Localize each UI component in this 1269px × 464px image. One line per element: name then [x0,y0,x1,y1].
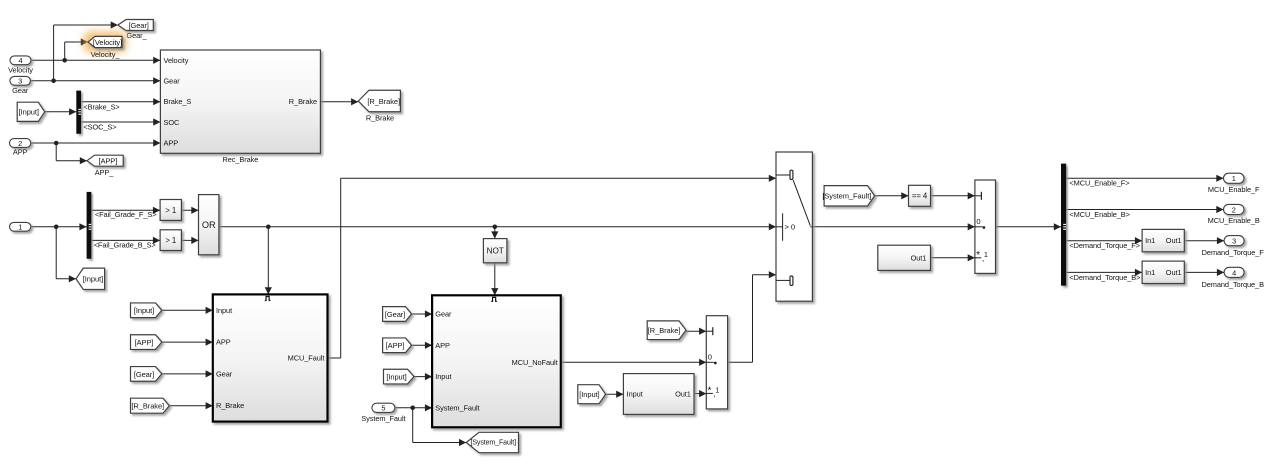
svg-text:[R_Brake]: [R_Brake] [648,326,681,335]
inport 2 [10,139,31,148]
label Demand_Torque_F [1202,248,1265,257]
goto tag [R_Brake] [358,90,400,112]
logic block OR [199,195,219,255]
svg-text:Input: Input [435,372,451,381]
wire Inport2 to Rec_Brake APP with branch down to Goto [APP] [31,139,161,164]
svg-text:<Fail_Grade_B_S>: <Fail_Grade_B_S> [94,241,156,250]
goto tag [Input] lower-left [76,268,105,289]
svg-text:Input: Input [627,390,643,399]
svg-text:2: 2 [1232,205,1236,214]
subsystem Rec_Brake [160,50,320,153]
goto tag [Gear] [118,20,153,31]
svg-text:1: 1 [18,223,22,232]
svg-text:[R_Brake]: [R_Brake] [367,97,400,106]
svg-text:System_Fault: System_Fault [435,403,479,412]
svg-text:In1: In1 [1145,268,1155,277]
signal label SOC_S [83,123,116,132]
wire From [R_Brake] to MultiportSwitch1 control [686,328,706,335]
bus selector 2 [87,192,92,259]
svg-text:Out1: Out1 [1166,268,1182,277]
label Velocity [8,65,33,74]
svg-text:[System_Fault]: [System_Fault] [470,439,516,446]
svg-text:Brake_S: Brake_S [164,97,192,106]
wire subsystem Out1 to MultiportSwitch1 port1 [694,390,706,397]
wire Rec_Brake R_Brake to Goto [R_Brake] [320,98,358,105]
svg-text:<Demand_Torque_B>: <Demand_Torque_B> [1069,273,1140,282]
goto tag [Velocity] highlighted [84,31,127,52]
svg-text:[Input]: [Input] [83,275,103,284]
wire From [Input] to MCU_Fault Input [162,307,213,314]
wire In1Out1 subsystem1 to Outport3 [1184,237,1224,244]
svg-text:[Velocity]: [Velocity] [93,38,122,47]
svg-text:<Fail_Grade_F_S>: <Fail_Grade_F_S> [95,210,157,219]
from tag [Gear] for MCU_NoFault [383,307,412,322]
signal label Fail_Grade_B_S [94,241,156,250]
from tag [Input] for MCU_Fault [131,303,162,318]
compare block >1 upper [160,200,181,221]
label MCU_Enable_B [1208,216,1260,225]
outport 4 [1224,267,1244,277]
svg-text:<Brake_S>: <Brake_S> [83,102,119,111]
label Demand_Torque_B [1201,280,1264,289]
svg-text:Demand_Torque_F: Demand_Torque_F [1202,248,1265,257]
subsystem Input/Out1 [623,374,694,415]
svg-text:[APP]: [APP] [386,341,405,350]
svg-text:3: 3 [18,77,22,86]
subsystem MCU_NoFault (triggered) [432,295,561,427]
wire MultiportSwitch2 output to BusSelector3 [996,223,1062,230]
svg-text:0: 0 [976,217,980,226]
wire From [Input] to MCU_NoFault Input [414,373,432,380]
svg-text:<Demand_Torque_F>: <Demand_Torque_F> [1069,241,1140,250]
wire Out1 subsystem to MultiportSwitch2 port1 [931,254,975,261]
svg-text:MCU_Enable_F: MCU_Enable_F [1208,185,1260,194]
svg-text:APP: APP [164,139,179,148]
svg-text:== 4: == 4 [912,191,928,200]
svg-text:Gear_: Gear_ [126,31,147,40]
wire BusSelector1 Brake_S to Rec_Brake [81,98,160,105]
signal label MCU_Enable_B [1069,210,1130,219]
subsystem In1/Out1 lower [1142,261,1184,283]
svg-text:[System_Fault]: [System_Fault] [822,192,871,201]
wire Compare ==4 to MultiportSwitch2 control [931,192,975,199]
svg-text:R_Brake: R_Brake [216,401,244,410]
wire BusSelector2 Fail_Grade_F_S to Compare1 [91,207,160,214]
svg-text:MCU_NoFault: MCU_NoFault [512,358,558,367]
wire MultiportSwitch1 output up to Switch input3 [728,271,776,362]
svg-text:APP: APP [13,148,28,157]
wire BusSelector3 MCU_Enable_F to Outport1 [1066,175,1224,182]
svg-text:APP: APP [216,338,231,347]
subsystem MCU_Fault (triggered) [213,294,328,421]
wire Compare1 to OR [181,207,198,214]
compare block >1 lower [160,230,181,251]
wire Inport1 to BusSelector2 with branch down to Goto [Input] [31,223,87,282]
signal label Fail_Grade_F_S [95,210,157,219]
bus selector 3 [1061,164,1066,286]
from tag [Input] top-left [17,102,45,121]
wire From [Input] to subsystem Input [606,391,624,398]
svg-text:Gear: Gear [435,310,452,319]
wire NOT output to MCU_NoFault trigger [491,263,498,296]
goto tag [System_Fault] [466,432,518,452]
svg-text:Out1: Out1 [911,253,927,262]
wire Inport5 to MCU_NoFault System_Fault with branch to Goto [System_Fault] [395,404,466,446]
label MCU_Enable_F [1208,185,1260,194]
svg-text:[Gear]: [Gear] [128,21,148,30]
svg-text:Out1: Out1 [675,390,691,399]
goto tag [APP] [87,155,123,166]
compare block == 4 [909,185,931,206]
svg-text:> 1: > 1 [165,236,176,245]
label APP [13,148,28,157]
svg-text:APP: APP [435,341,450,350]
svg-text:Gear: Gear [164,77,181,86]
svg-text:[Input]: [Input] [134,306,154,315]
from tag [R_Brake] for MCU_Fault [131,398,170,413]
subsystem In1/Out1 upper [1142,229,1184,251]
svg-text:<MCU_Enable_B>: <MCU_Enable_B> [1069,210,1130,219]
wire From [Gear] to MCU_Fault Gear [162,370,213,377]
svg-text:Demand_Torque_B: Demand_Torque_B [1201,280,1264,289]
svg-text:Input: Input [216,306,232,315]
wire BusSelector1 SOC_S to Rec_Brake [81,118,160,125]
svg-text:1: 1 [1232,174,1236,183]
svg-text:1: 1 [715,386,719,395]
svg-text:*: * [708,386,712,397]
subsystem Out1 [878,245,931,270]
svg-text:0: 0 [708,352,712,361]
svg-text:[Input]: [Input] [579,390,599,399]
svg-text:*: * [976,250,980,261]
svg-text:MCU_Enable_B: MCU_Enable_B [1208,216,1260,225]
wire From [Gear] to MCU_NoFault Gear [412,310,433,317]
from tag [APP] for MCU_Fault [131,335,162,350]
inport 3 [10,76,31,85]
svg-text:Gear: Gear [216,369,233,378]
logic block NOT [483,239,507,263]
from tag [Input] for MCU_NoFault [384,369,415,384]
switch block > 0 [776,152,812,301]
from tag [Input] mid [578,385,606,404]
svg-text:APP_: APP_ [95,168,115,177]
from tag [System_Fault] [822,186,874,206]
label Gear_ [126,31,147,40]
svg-text:[APP]: [APP] [135,338,154,347]
wire MCU_NoFault output to MultiportSwitch1 [561,359,707,366]
inport 4 [10,56,31,65]
svg-text:In1: In1 [1145,236,1155,245]
svg-text:> 1: > 1 [165,206,176,215]
label System_Fault [361,414,405,423]
wire BusSelector3 MCU_Enable_B to Outport2 [1066,206,1224,213]
label Velocity_ [91,50,121,59]
outport 1 [1224,173,1245,183]
wire BusSelector3 Demand_Torque_B to In1 subsystem2 [1066,269,1142,276]
wire BusSelector3 Demand_Torque_F to In1 subsystem1 [1066,237,1142,244]
svg-text:OR: OR [202,220,216,230]
wire Compare2 to OR [181,237,198,244]
wire Switch output to MultiportSwitch2 [812,223,975,230]
bus selector 1 [76,91,81,134]
svg-text:Velocity: Velocity [8,65,33,74]
svg-text:Velocity: Velocity [164,56,189,65]
wire From [APP] to MCU_NoFault APP [412,342,433,349]
from tag [APP] for MCU_NoFault [383,338,412,353]
svg-text:> 0: > 0 [785,223,796,232]
multiport switch 2 [975,180,996,273]
svg-text:[Input]: [Input] [19,108,39,117]
label Rec_Brake [222,155,258,164]
wire Inport4 to Rec_Brake Velocity with branch up to Goto [Velocity] [31,38,160,64]
outport 2 [1224,204,1245,214]
label R_Brake [366,113,394,122]
signal label Demand_Torque_B [1069,273,1140,282]
wire From [APP] to MCU_Fault APP [162,339,213,346]
signal label MCU_Enable_F [1069,179,1129,188]
wire Inport3 to Rec_Brake Gear with branch up to Goto [Gear] [31,21,161,84]
svg-text:<SOC_S>: <SOC_S> [83,123,116,132]
wire BusSelector2 Fail_Grade_B_S to Compare2 [91,237,160,244]
wire MCU_Fault output up to Switch input1 [328,175,777,358]
label Gear [12,86,29,95]
svg-text:Out1: Out1 [1166,236,1182,245]
svg-text:[Input]: [Input] [386,373,406,382]
wire From [R_Brake] to MCU_Fault R_Brake [169,402,213,409]
svg-text:Rec_Brake: Rec_Brake [222,155,258,164]
from tag [Gear] for MCU_Fault [131,367,162,382]
svg-text:3: 3 [1232,237,1236,246]
from tag [R_Brake] mid [647,321,686,340]
svg-text:R_Brake: R_Brake [289,97,317,106]
svg-text:5: 5 [381,404,385,413]
svg-text:System_Fault: System_Fault [361,414,405,423]
svg-text:[Gear]: [Gear] [385,310,405,319]
svg-text:Velocity_: Velocity_ [91,50,121,59]
wire In1Out1 subsystem2 to Outport4 [1184,269,1224,276]
wire OR output to Switch input2 with trigger branches [219,223,776,294]
svg-text:1: 1 [984,250,988,259]
svg-text:[R_Brake]: [R_Brake] [131,402,164,411]
inport 5 [372,403,395,413]
signal label Brake_S [83,102,119,111]
outport 3 [1224,236,1244,246]
svg-text:SOC: SOC [164,118,181,127]
svg-text:[Gear]: [Gear] [134,370,154,379]
svg-text:NOT: NOT [487,246,504,255]
svg-text:4: 4 [18,56,22,65]
wire From [System_Fault] to Compare ==4 [875,192,909,199]
svg-text:[APP]: [APP] [98,157,117,166]
wire From [Input] to BusSelector1 [45,108,77,115]
svg-text:MCU_Fault: MCU_Fault [288,354,325,363]
svg-text:R_Brake: R_Brake [366,113,394,122]
svg-text:Gear: Gear [12,86,29,95]
svg-text:2: 2 [18,139,22,148]
svg-text:<MCU_Enable_F>: <MCU_Enable_F> [1069,179,1129,188]
svg-text:4: 4 [1232,268,1236,277]
multiport switch 1 [706,316,727,409]
inport 1 [10,222,31,231]
label APP_ [95,168,115,177]
signal label Demand_Torque_F [1069,241,1140,250]
